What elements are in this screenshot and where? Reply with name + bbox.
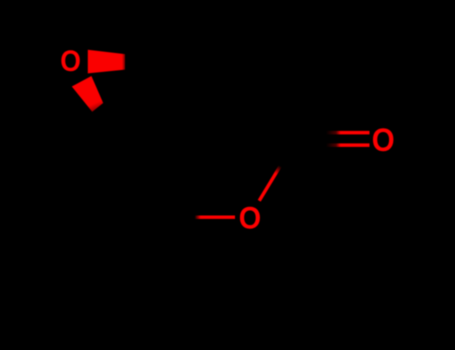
- svg-text:O: O: [60, 45, 81, 78]
- epoxide oxygen label O: [60, 45, 81, 78]
- carbonyl oxygen label O: [372, 122, 395, 158]
- carbonyl C=O double bond upper line: [326, 131, 370, 135]
- wedge bond epoxide O to C-right (bold tapered bond): [88, 50, 125, 74]
- wedge bond epoxide O to C-bottom (bold tapered bond): [72, 76, 103, 112]
- carbonyl C=O double bond lower line: [326, 143, 370, 147]
- wire: C-O ester bond (left horizontal segment): [195, 216, 235, 219]
- svg-text:O: O: [239, 202, 261, 236]
- ester oxygen label O: [239, 202, 261, 236]
- wire: ester O to carbonyl C bond (diagonal): [259, 166, 280, 201]
- svg-text:O: O: [372, 122, 395, 158]
